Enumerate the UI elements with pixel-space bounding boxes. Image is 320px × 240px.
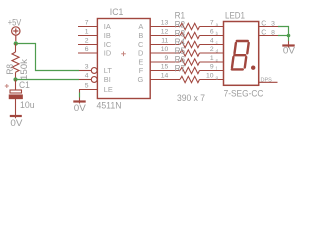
svg-text:7-SEG-CC: 7-SEG-CC: [224, 89, 264, 100]
svg-text:6: 6: [210, 29, 214, 36]
display LED1 body 7-SEG-CC: [224, 22, 259, 86]
svg-text:12: 12: [161, 29, 169, 36]
pin ID 6: [78, 52, 98, 54]
display pin DPS: [259, 81, 278, 83]
svg-text:D: D: [138, 49, 143, 58]
resistor R6: [150, 67, 223, 73]
svg-text:DPS: DPS: [261, 77, 273, 83]
svg-text:0V: 0V: [74, 103, 87, 114]
svg-text:7: 7: [85, 20, 89, 27]
svg-text:8: 8: [271, 29, 275, 36]
svg-text:F: F: [139, 66, 144, 75]
svg-text:BI: BI: [104, 75, 111, 84]
svg-text:C1: C1: [19, 80, 30, 91]
svg-text:0V: 0V: [10, 118, 23, 129]
svg-text:13: 13: [161, 20, 169, 27]
svg-text:3: 3: [85, 64, 89, 71]
node junction R8/C1: [13, 77, 17, 81]
svg-text:390 x 7: 390 x 7: [177, 93, 205, 104]
node junction +5V net: [14, 41, 18, 45]
svg-text:9: 9: [210, 64, 214, 71]
display pin C 8: [259, 35, 278, 37]
svg-text:R7: R7: [175, 64, 186, 75]
digit decimal point: [251, 66, 255, 70]
display pin C 3: [259, 26, 278, 28]
svg-text:ID: ID: [104, 49, 111, 58]
svg-text:2: 2: [210, 46, 214, 53]
pin IC 2: [78, 44, 98, 46]
pin IB 1: [78, 35, 98, 37]
node junction C8: [287, 34, 291, 38]
svg-text:3: 3: [271, 20, 275, 27]
resistor R1: [150, 23, 223, 29]
svg-text:6: 6: [85, 46, 89, 53]
svg-text:R8: R8: [5, 64, 16, 75]
svg-text:4: 4: [210, 38, 214, 45]
svg-text:0V: 0V: [283, 45, 296, 56]
svg-text:1: 1: [85, 29, 89, 36]
svg-text:C: C: [261, 30, 266, 37]
svg-text:150k: 150k: [19, 59, 30, 80]
svg-text:4511N: 4511N: [97, 101, 122, 112]
svg-text:5: 5: [85, 83, 89, 90]
svg-text:10: 10: [206, 73, 214, 80]
svg-text:A: A: [138, 22, 143, 31]
svg-text:10u: 10u: [20, 100, 35, 111]
wire +5V to LT: [16, 44, 79, 71]
wire LE to ground: [79, 90, 81, 93]
supply +5V symbol: [12, 27, 20, 41]
svg-text:IA: IA: [104, 22, 111, 31]
svg-text:IB: IB: [104, 31, 111, 40]
wire C8 to junction: [278, 35, 289, 37]
pin LE 5: [79, 89, 98, 91]
capacitor C1: [9, 80, 22, 119]
C1 polarity plus: [5, 84, 9, 88]
svg-text:14: 14: [161, 73, 169, 80]
svg-text:11: 11: [161, 38, 168, 45]
resistor R2: [150, 32, 223, 38]
digit 8 segments: [232, 41, 249, 69]
svg-text:15: 15: [161, 64, 169, 71]
resistor R3: [150, 41, 223, 47]
pin BI 4 bubble: [79, 79, 91, 81]
pin IA 7: [78, 26, 98, 28]
svg-text:LE: LE: [104, 85, 113, 94]
svg-text:IC1: IC1: [110, 7, 124, 18]
svg-text:+5V: +5V: [8, 18, 22, 29]
ground 0V under IC1: [79, 98, 81, 104]
svg-text:4: 4: [85, 73, 89, 80]
wire C3 to ground: [278, 27, 289, 42]
svg-text:C: C: [261, 21, 266, 28]
ground 0V right: [288, 41, 290, 48]
svg-text:10: 10: [161, 46, 169, 53]
resistor R5: [150, 59, 223, 65]
wire junction to BI: [16, 79, 80, 81]
svg-text:2: 2: [85, 38, 89, 45]
svg-text:9: 9: [165, 55, 169, 62]
IC IC1 body 4511N: [97, 19, 150, 99]
resistor R8: [12, 44, 19, 80]
origin cross IC1: [121, 52, 126, 57]
svg-text:LT: LT: [104, 66, 113, 75]
svg-text:B: B: [138, 31, 143, 40]
svg-text:G: G: [138, 75, 144, 84]
svg-text:1: 1: [210, 55, 214, 62]
resistor R4: [150, 50, 223, 56]
pin LT 3 bubble: [79, 70, 91, 72]
resistor R7: [150, 76, 223, 82]
svg-text:7: 7: [210, 20, 214, 27]
ground 0V under C1: [10, 115, 22, 117]
svg-text:LED1: LED1: [225, 11, 245, 22]
